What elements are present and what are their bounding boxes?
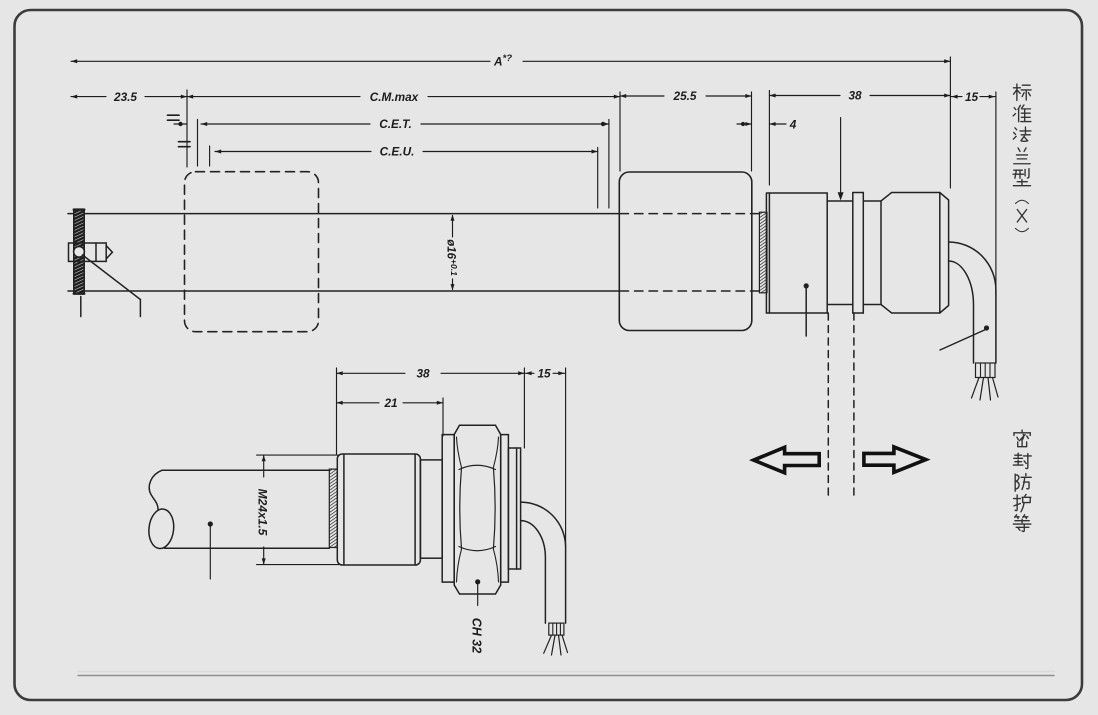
dim 38 top [769, 89, 950, 103]
plunger tip [69, 243, 113, 261]
thread bush bottom figure [329, 469, 337, 547]
svg-text:C.E.T.: C.E.T. [379, 117, 412, 131]
label 标准法兰型（X） [1013, 84, 1031, 232]
tube break curl [147, 470, 176, 549]
dim A* overall length [71, 53, 950, 69]
neck section [420, 460, 442, 558]
cable end connector bottom [544, 623, 568, 655]
bottom divider line [78, 672, 1054, 676]
leader dot on tube bottom fig [208, 521, 213, 579]
svg-text:23.5: 23.5 [113, 90, 137, 104]
tube bottom figure [162, 470, 329, 548]
dim 21 [337, 396, 444, 410]
dim 4 [737, 117, 797, 131]
cable bottom figure [521, 502, 566, 623]
svg-text:CH 32: CH 32 [470, 618, 484, 653]
svg-text:38: 38 [416, 367, 430, 381]
dim 15 top [950, 90, 996, 104]
groove center dashed lines [828, 313, 854, 497]
extension lines top figure [187, 57, 996, 294]
dim C.E.U. [179, 142, 598, 159]
svg-text:M24x1.5: M24x1.5 [256, 489, 270, 536]
dim C.E.T. [168, 115, 610, 131]
threaded core rod [74, 210, 84, 294]
svg-text:C.E.U.: C.E.U. [380, 145, 415, 159]
dim 25.5 [620, 89, 752, 103]
svg-text:4: 4 [789, 117, 797, 131]
svg-text:A*?: A*? [493, 53, 512, 69]
dim 15 bottom [524, 367, 565, 381]
stroke direction arrow right [864, 447, 926, 473]
leader from pivot [81, 255, 141, 317]
mounting block M24 [337, 454, 420, 565]
dim C.M.max [187, 90, 620, 104]
leader dot on housing [804, 283, 809, 336]
washer left [442, 435, 454, 582]
hex nut CH32 [454, 425, 501, 594]
extension lines bottom figure [337, 368, 566, 547]
svg-text:C.M.max: C.M.max [370, 90, 419, 104]
sensor housing [766, 193, 948, 314]
svg-text:15: 15 [965, 90, 979, 104]
svg-text:38: 38 [848, 89, 862, 103]
leader CH 32 [470, 579, 484, 653]
leader dot on cable [940, 325, 989, 350]
stroke direction arrow left [754, 447, 820, 473]
end disc [508, 448, 520, 569]
dim M24x1.5 [256, 455, 339, 564]
solid position block [619, 172, 752, 331]
dim diameter 16 [445, 215, 460, 291]
cable end connector top [972, 363, 999, 400]
svg-text:15: 15 [537, 367, 551, 381]
svg-text:25.5: 25.5 [673, 89, 697, 103]
svg-text:ø16+0.1: ø16+0.1 [445, 239, 460, 276]
dashed position block (stroke range) [185, 172, 319, 332]
svg-text:21: 21 [383, 396, 397, 410]
probe tube body [68, 214, 759, 291]
dim 38 bottom [337, 367, 525, 381]
thread bush top figure [759, 212, 767, 293]
dim 23.5 [71, 90, 187, 104]
pointer arrow into mounting groove [838, 118, 844, 201]
cable top figure [949, 242, 996, 363]
label 密封防护等 [1013, 430, 1031, 531]
pivot circle on rod [74, 246, 85, 257]
washer right [501, 435, 509, 582]
